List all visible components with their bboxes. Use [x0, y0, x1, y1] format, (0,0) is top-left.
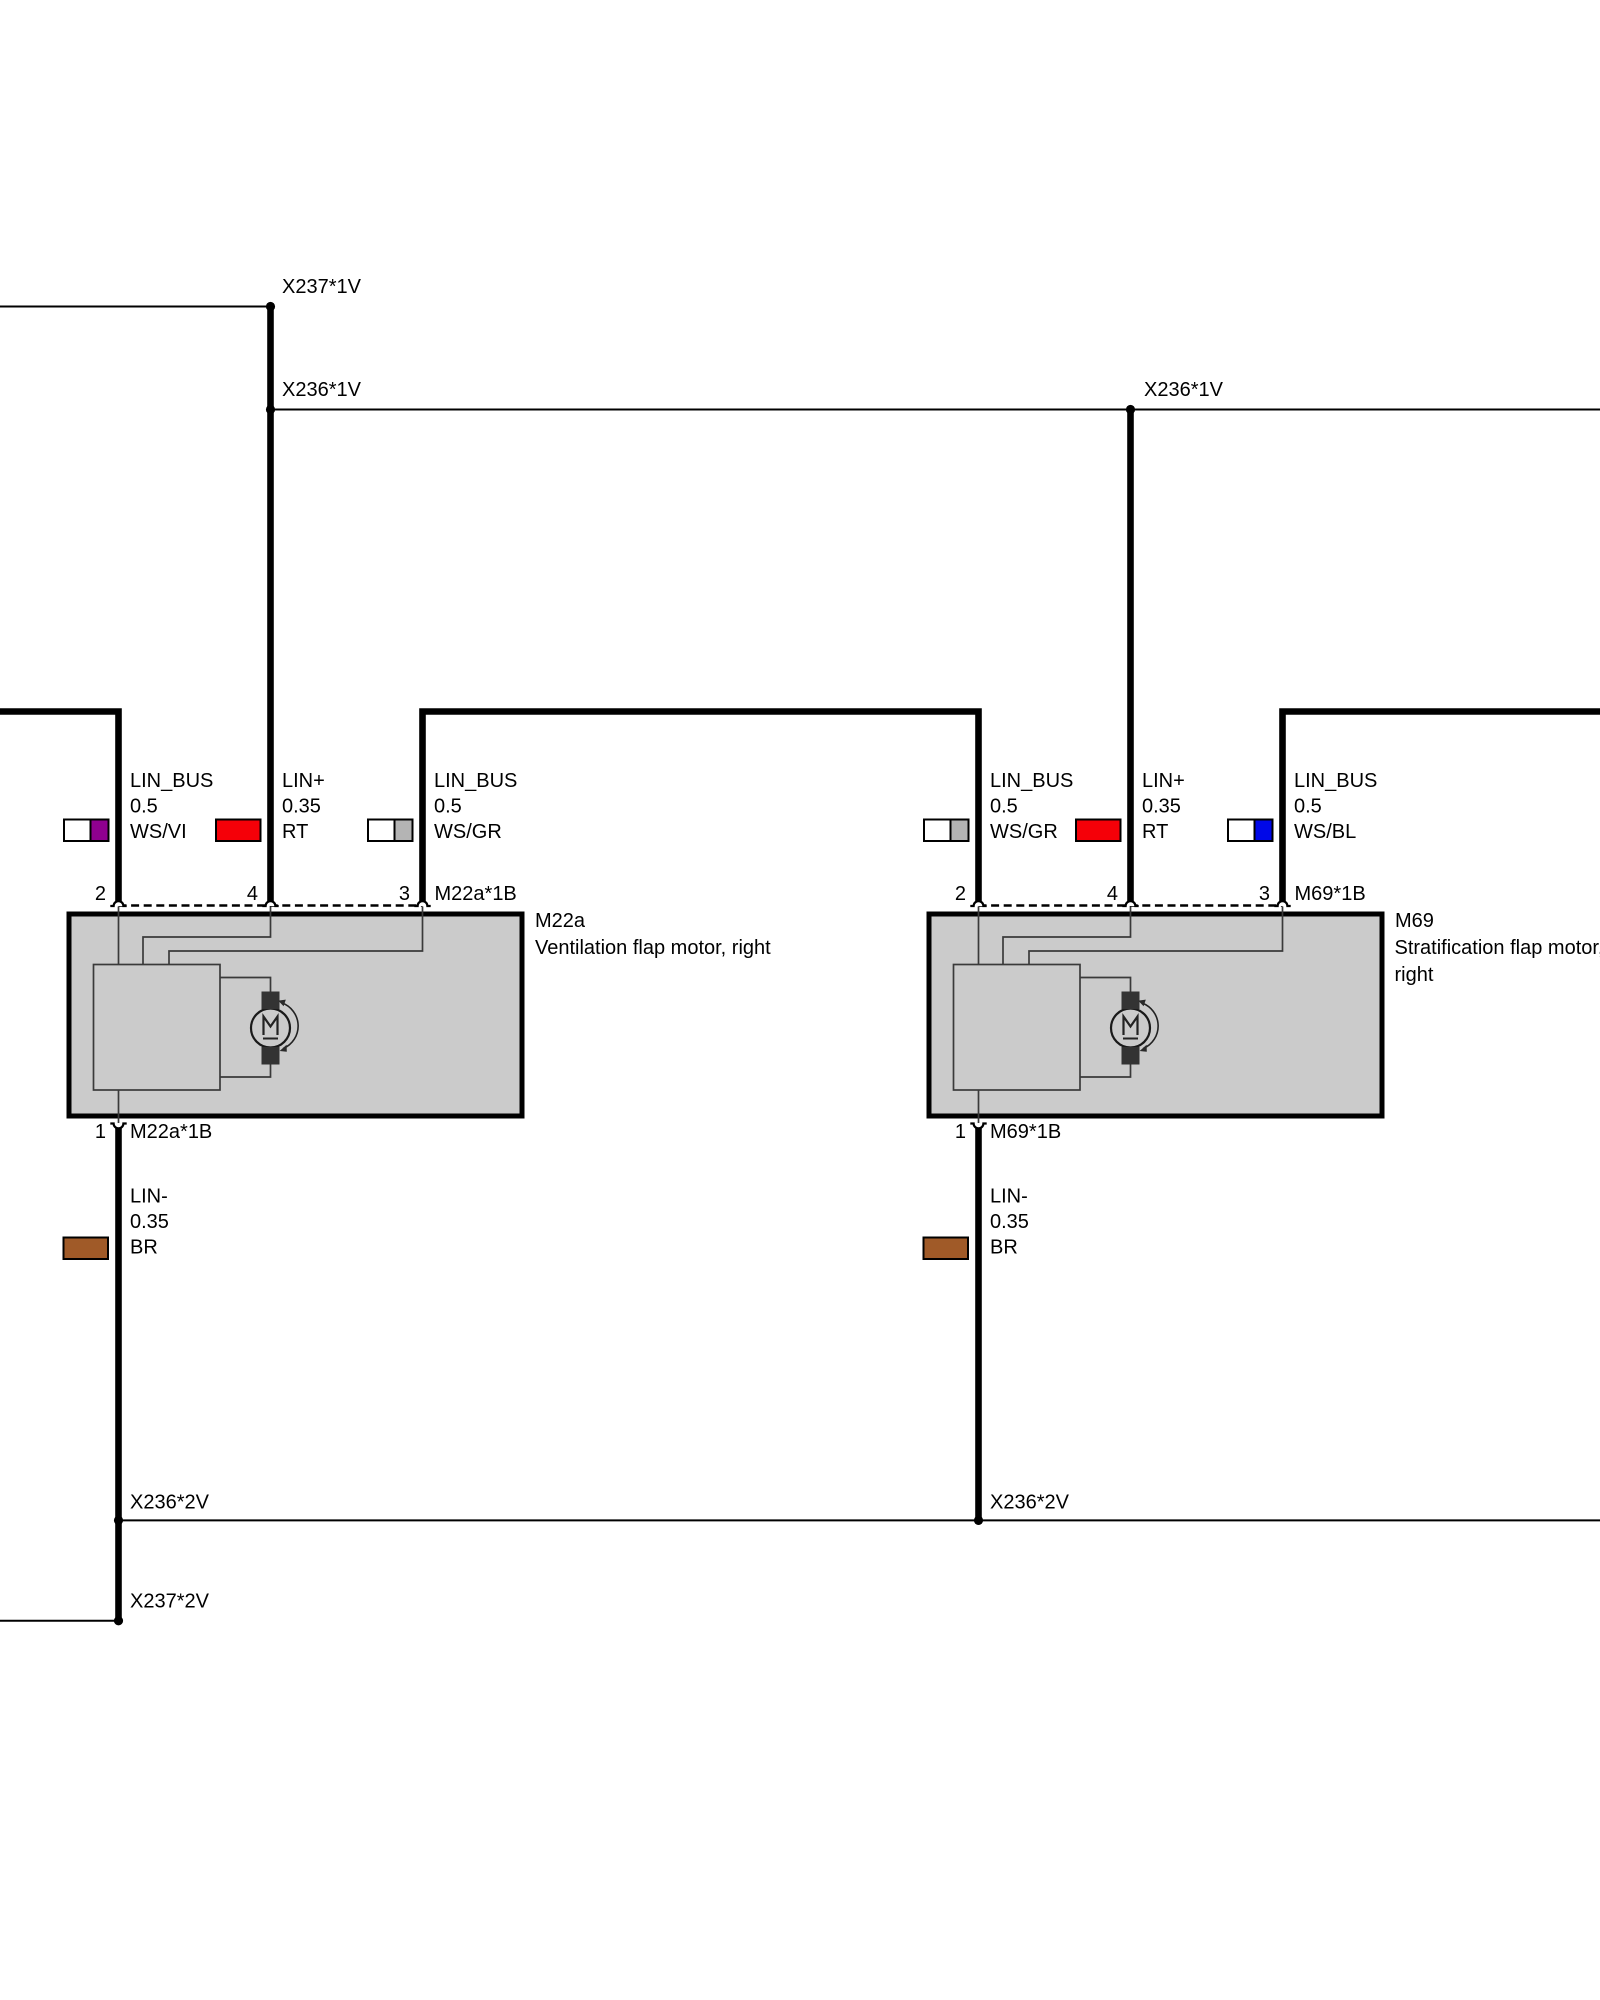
wire LIN_BUS from left edge to M22a pin 2 [0, 712, 119, 902]
junction dot X237*1V [266, 302, 275, 311]
wire pin 3 internal [1029, 907, 1283, 965]
colour swatch WS/VI [64, 820, 109, 842]
svg-text:Stratification flap motor,: Stratification flap motor, [1395, 937, 1600, 959]
svg-text:LIN+: LIN+ [282, 770, 325, 792]
wire pin 2 internal [978, 907, 980, 965]
junction dot X236*1V right [1126, 405, 1135, 414]
svg-text:X236*1V: X236*1V [1144, 379, 1224, 401]
wire pin 4 internal [1003, 907, 1131, 965]
svg-text:0.5: 0.5 [1294, 796, 1322, 818]
pin 4 socket M69 [1122, 901, 1138, 906]
svg-text:BR: BR [130, 1237, 158, 1259]
svg-text:LIN_BUS: LIN_BUS [434, 770, 517, 792]
wire LIN_BUS from M22a pin 3 to M69 pin 2 [423, 712, 979, 902]
wire LIN+ vertical to M22a pin 4 [267, 307, 274, 902]
connector M69*1B dashed line [979, 904, 1283, 907]
svg-text:RT: RT [1142, 821, 1168, 843]
svg-text:LIN_BUS: LIN_BUS [990, 770, 1073, 792]
wire motor bottom internal [1080, 1064, 1131, 1077]
motor M69 rotation arrow [1142, 1003, 1159, 1049]
svg-text:3: 3 [1259, 883, 1270, 905]
wire motor bottom internal [220, 1064, 271, 1077]
pin 1 socket M22a [110, 1124, 126, 1129]
wire X237*1V horizontal junction line [0, 306, 271, 308]
wire pin 4 internal [143, 907, 271, 965]
junction dot X236*2V left [114, 1516, 123, 1525]
svg-text:2: 2 [95, 883, 106, 905]
svg-text:WS/GR: WS/GR [434, 821, 502, 843]
svg-text:0.5: 0.5 [990, 796, 1018, 818]
motor M22a rotation arrow [282, 1003, 299, 1049]
motor M69 letter underline [1123, 1038, 1138, 1040]
svg-text:X237*1V: X237*1V [282, 276, 362, 298]
svg-text:0.5: 0.5 [130, 796, 158, 818]
wire X236*2V horizontal junction line [119, 1519, 1600, 1521]
motor M69 bottom brush [1122, 1047, 1140, 1065]
svg-text:0.35: 0.35 [990, 1211, 1029, 1233]
svg-text:0.35: 0.35 [282, 796, 321, 818]
colour swatch BR right [924, 1238, 969, 1260]
svg-text:0.35: 0.35 [130, 1211, 169, 1233]
wire pin 1 internal [118, 1090, 120, 1123]
svg-text:WS/BL: WS/BL [1294, 821, 1356, 843]
wire X237*2V horizontal junction line [0, 1620, 119, 1622]
wire LIN- from M22a pin 1 down [115, 1127, 122, 1621]
M22a inner actuator block [94, 965, 221, 1091]
wire LIN- from M69 pin 1 down [975, 1127, 982, 1520]
svg-text:2: 2 [955, 883, 966, 905]
colour swatch WS/GR [368, 820, 413, 842]
wire LIN+ vertical to M69 pin 4 [1127, 410, 1134, 902]
motor M69 letter M [1124, 1017, 1138, 1036]
wire LIN_BUS from M69 pin 3 to right edge [1283, 712, 1600, 902]
pin 2 socket M69 [970, 901, 986, 906]
wire X236*1V horizontal junction line [271, 409, 1600, 411]
svg-text:WS/VI: WS/VI [130, 821, 187, 843]
colour swatch WS/BL [1228, 820, 1273, 842]
svg-text:LIN_BUS: LIN_BUS [1294, 770, 1377, 792]
motor M22a circle [251, 1009, 290, 1048]
junction dot X237*2V [114, 1616, 123, 1625]
junction dot X236*1V left [266, 405, 275, 414]
svg-text:X237*2V: X237*2V [130, 1591, 210, 1613]
svg-text:X236*1V: X236*1V [282, 379, 362, 401]
svg-text:0.5: 0.5 [434, 796, 462, 818]
pin 2 socket M22a [110, 901, 126, 906]
svg-text:BR: BR [990, 1237, 1018, 1259]
colour swatch RT right box [1076, 820, 1121, 842]
svg-text:1: 1 [95, 1121, 106, 1143]
motor M22a letter underline [263, 1038, 278, 1040]
colour swatch RT [216, 820, 261, 842]
svg-text:RT: RT [282, 821, 308, 843]
wire pin 1 internal [978, 1090, 980, 1123]
pin 1 socket M69 [970, 1124, 986, 1129]
component M69 box [929, 914, 1382, 1116]
svg-text:WS/GR: WS/GR [990, 821, 1058, 843]
svg-text:M69: M69 [1395, 910, 1434, 932]
svg-text:M22a: M22a [535, 910, 586, 932]
svg-text:LIN+: LIN+ [1142, 770, 1185, 792]
svg-text:LIN-: LIN- [130, 1186, 168, 1208]
wire pin 3 internal [169, 907, 423, 965]
svg-text:Ventilation flap motor, right: Ventilation flap motor, right [535, 937, 771, 959]
pin 3 socket M22a [414, 901, 430, 906]
svg-text:LIN_BUS: LIN_BUS [130, 770, 213, 792]
svg-text:LIN-: LIN- [990, 1186, 1028, 1208]
svg-text:M69*1B: M69*1B [1295, 883, 1366, 905]
svg-text:right: right [1395, 964, 1434, 986]
motor M22a letter M [264, 1017, 278, 1036]
svg-text:4: 4 [1107, 883, 1118, 905]
connector M22a*1B dashed line [119, 904, 423, 907]
pin 4 socket M22a [262, 901, 278, 906]
component M22a box [69, 914, 522, 1116]
svg-text:1: 1 [955, 1121, 966, 1143]
motor M69 top brush [1122, 992, 1140, 1010]
svg-text:M22a*1B: M22a*1B [435, 883, 517, 905]
motor M69 circle [1111, 1009, 1150, 1048]
wire pin 2 internal [118, 907, 120, 965]
svg-text:M22a*1B: M22a*1B [130, 1121, 212, 1143]
wire motor top internal [1080, 978, 1131, 993]
svg-text:M69*1B: M69*1B [990, 1121, 1061, 1143]
svg-text:X236*2V: X236*2V [990, 1492, 1070, 1514]
junction dot X236*2V right [974, 1516, 983, 1525]
svg-text:0.35: 0.35 [1142, 796, 1181, 818]
svg-text:X236*2V: X236*2V [130, 1492, 210, 1514]
motor M22a bottom brush [262, 1047, 280, 1065]
svg-text:3: 3 [399, 883, 410, 905]
svg-text:4: 4 [247, 883, 258, 905]
colour swatch BR left [64, 1238, 109, 1260]
M69 inner actuator block [954, 965, 1081, 1091]
colour swatch WS/GR right box [924, 820, 969, 842]
wire motor top internal [220, 978, 271, 993]
motor M22a top brush [262, 992, 280, 1010]
pin 3 socket M69 [1274, 901, 1290, 906]
